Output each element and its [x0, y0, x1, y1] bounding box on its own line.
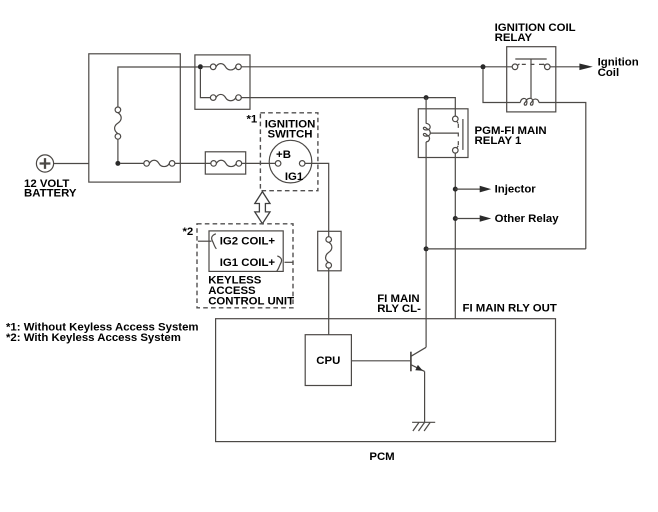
node PGM-FI relay coil tap: [424, 95, 429, 100]
pin IG1: [285, 171, 304, 183]
wire stub IG2 COIL+: [198, 240, 212, 242]
node top fuse feed: [198, 64, 203, 69]
wire relay contact to ignition coil arrow: [550, 66, 580, 68]
label IGNITION SWITCH: [265, 118, 316, 140]
label *1: [247, 113, 258, 125]
node other relay tap: [453, 216, 458, 221]
svg-text:+B: +B: [276, 149, 291, 161]
connector IG1: [277, 256, 282, 271]
arrow to other relay: [480, 215, 492, 222]
arrow to ignition coil: [579, 64, 592, 71]
wire IG1 to fuse: [305, 163, 329, 236]
node battery junction: [115, 161, 120, 166]
wire node down to fuse B: [200, 69, 210, 98]
wire tap into relay coil: [425, 98, 427, 124]
svg-text:*2: With Keyless Access System: *2: With Keyless Access System: [6, 332, 181, 344]
label PGM-FI MAIN RELAY 1: [475, 125, 547, 147]
wire fuse A to ignition coil relay contact: [241, 66, 512, 68]
svg-text:Injector: Injector: [495, 184, 537, 196]
arrow to injector: [480, 186, 492, 193]
fuse in holder: [211, 160, 242, 166]
wire injector arrow: [455, 188, 480, 190]
wire fuse B to PGM-FI main relay: [241, 98, 455, 117]
ground: [412, 422, 435, 431]
svg-text:SWITCH: SWITCH: [268, 128, 313, 140]
fuse holder below ignition switch: [318, 231, 341, 270]
PGM-FI main relay 1 box: [418, 109, 468, 158]
wire node to fuse A: [203, 66, 211, 68]
wire other relay arrow: [455, 218, 480, 220]
pin IG2 COIL+: [220, 235, 276, 247]
svg-text:RELAY 1: RELAY 1: [475, 135, 523, 147]
ignition switch S1: [269, 140, 312, 183]
svg-text:Coil: Coil: [598, 67, 620, 79]
node injector tap: [453, 187, 458, 192]
svg-text:IG1 COIL+: IG1 COIL+: [220, 257, 276, 269]
wire tap down to relay coil: [483, 69, 520, 102]
svg-text:CPU: CPU: [316, 355, 340, 367]
PGM-FI relay armature: [430, 132, 458, 134]
wire relay coil to right-side drop: [539, 103, 586, 249]
wire fuse holder to ignition switch +B: [242, 162, 276, 164]
wire right-side drop to junction: [426, 248, 586, 250]
node coil return junction: [424, 246, 429, 251]
svg-text:Other Relay: Other Relay: [495, 213, 560, 225]
fuse A (ignition coil relay feed): [210, 64, 241, 70]
node ignition coil relay coil tap: [481, 64, 486, 69]
CPU box U1: [305, 335, 351, 386]
label KEYLESS ACCESS CONTROL UNIT: [208, 274, 294, 307]
wire fuse to fuse holder: [175, 162, 211, 164]
svg-text:CONTROL UNIT: CONTROL UNIT: [208, 295, 294, 307]
PGM-FI relay coil: [423, 123, 430, 142]
PCM box: [216, 319, 556, 442]
svg-text:FI MAIN RLY OUT: FI MAIN RLY OUT: [463, 302, 557, 314]
keyless access control unit dashed box: [197, 224, 293, 308]
wire relay output down to PCM: [454, 153, 456, 319]
label Other Relay: [495, 213, 560, 225]
label IGNITION COIL RELAY: [495, 22, 576, 44]
under-hood fuse/relay box: [89, 54, 181, 182]
pin IG1 COIL+: [220, 257, 276, 269]
fuse B (PGM-FI main relay feed): [210, 94, 241, 100]
connector IG2: [212, 234, 217, 249]
keyless unit inner box: [209, 231, 283, 272]
wire CPU to transistor base: [351, 360, 410, 362]
label CPU: [316, 355, 340, 367]
label FI MAIN RLY OUT: [463, 302, 557, 314]
svg-text:*1: *1: [247, 113, 258, 125]
ignition coil relay coil: [520, 98, 539, 105]
fuse horizontal in fuse box: [144, 160, 175, 166]
wire PGM-FI coil down to transistor collector: [425, 142, 427, 347]
wire fuse up and over to top fuse box: [118, 67, 200, 107]
svg-text:RELAY: RELAY: [495, 32, 533, 44]
wire junction to horizontal fuse: [120, 162, 144, 164]
svg-text:IG2 COIL+: IG2 COIL+: [220, 235, 276, 247]
wire fuse to CPU: [328, 268, 330, 335]
fuse holder box: [205, 152, 245, 174]
link arrow ignition switch / keyless unit: [255, 192, 270, 224]
PGM-FI relay contacts: [453, 116, 463, 153]
label Ignition Coil: [598, 57, 639, 79]
svg-text:PCM: PCM: [369, 451, 394, 463]
transistor Q1: [411, 347, 426, 371]
wire stub IG1 COIL+: [285, 261, 294, 263]
top fuse box: [195, 55, 250, 109]
label FI MAIN RLY CL-: [377, 293, 421, 315]
fuse IG1 feed: [326, 237, 332, 268]
ignition coil relay contacts: [512, 59, 550, 98]
ignition switch dashed box: [260, 113, 318, 191]
svg-text:RLY CL-: RLY CL-: [377, 303, 421, 315]
battery 12 VOLT BATTERY: [36, 155, 53, 172]
wire junction up to fuse: [117, 139, 119, 161]
label 12 VOLT BATTERY: [24, 178, 77, 200]
notes: [6, 322, 199, 345]
fuse vertical in fuse box: [115, 107, 122, 139]
wire emitter to ground: [424, 371, 426, 422]
svg-text:*2: *2: [183, 226, 194, 238]
label PCM: [369, 451, 394, 463]
svg-text:IG1: IG1: [285, 171, 304, 183]
label Injector: [495, 184, 537, 196]
label *2: [183, 226, 194, 238]
ignition coil relay box: [507, 47, 556, 112]
wire battery to fuse box: [54, 163, 89, 165]
svg-text:BATTERY: BATTERY: [24, 187, 77, 199]
pin +B: [276, 149, 291, 161]
